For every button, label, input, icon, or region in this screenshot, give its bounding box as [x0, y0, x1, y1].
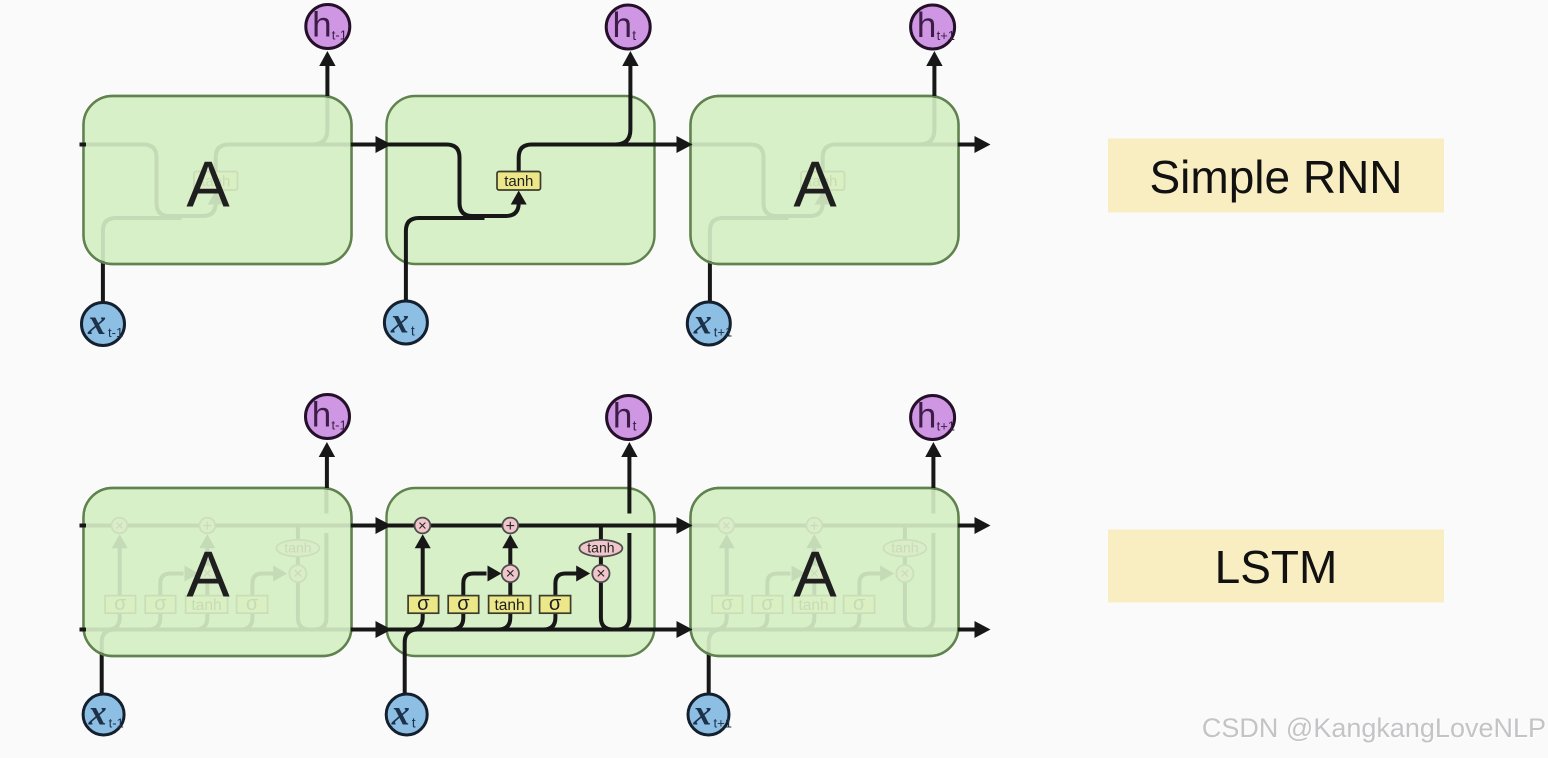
- svg-text:Simple RNN: Simple RNN: [1149, 151, 1402, 203]
- svg-text:t+1: t+1: [714, 325, 732, 340]
- wire h output arrow (top,t): [622, 51, 638, 96]
- svg-text:h: h: [612, 6, 631, 45]
- wire h arrow out of cell3 (bottom): [958, 621, 991, 638]
- label Simple RNN: [1108, 139, 1444, 213]
- svg-text:x: x: [88, 693, 107, 733]
- svg-text:t-1: t-1: [109, 716, 124, 731]
- LSTM cell A (t): [387, 488, 655, 656]
- svg-text:t+1: t+1: [937, 419, 955, 434]
- svg-text:t-1: t-1: [108, 325, 123, 340]
- node x_t bottom: [386, 693, 427, 736]
- node h_t-1 bottom: [306, 395, 350, 439]
- svg-text:x: x: [693, 693, 712, 733]
- wire h arrow cell1 to cell2 (top): [351, 136, 392, 153]
- svg-text:h: h: [613, 397, 632, 436]
- svg-text:A: A: [793, 148, 837, 221]
- wire x input (top,t): [404, 264, 408, 301]
- label LSTM: [1108, 530, 1444, 603]
- svg-text:x: x: [391, 693, 410, 733]
- wire C arrow out of cell3 (bottom): [958, 517, 991, 534]
- svg-text:t: t: [412, 715, 416, 731]
- svg-text:x: x: [693, 302, 712, 342]
- svg-text:h: h: [312, 396, 331, 435]
- svg-text:h: h: [917, 6, 936, 45]
- svg-text:A: A: [793, 538, 837, 611]
- wire h arrow out of cell3 (top): [958, 136, 991, 153]
- svg-text:t: t: [633, 418, 637, 434]
- LSTM cell A (t-1): [84, 488, 352, 656]
- node h_t+1 bottom: [911, 396, 955, 440]
- wire h output arrow (bottom,t): [621, 442, 637, 488]
- node x_t-1 top: [82, 302, 125, 346]
- svg-text:CSDN @KangkangLoveNLP: CSDN @KangkangLoveNLP: [1202, 713, 1546, 743]
- wire x input (top,t+1): [708, 264, 712, 302]
- LSTM cell A (t+1): [691, 488, 959, 656]
- wire h arrow cell2 to cell3 (top): [654, 136, 693, 153]
- svg-text:h: h: [917, 397, 936, 436]
- wire x input (bottom,t-1): [100, 656, 104, 694]
- svg-text:A: A: [186, 148, 230, 221]
- node x_t+1 bottom: [688, 693, 732, 736]
- node h_t+1 top: [911, 5, 955, 49]
- wire x input (bottom,t): [403, 656, 407, 694]
- wire C arrow cell2 to cell3 (bottom): [654, 517, 693, 534]
- wire x input (top,t-1): [101, 264, 105, 303]
- wire h arrow cell1 to cell2 (bottom): [351, 621, 392, 638]
- svg-text:x: x: [390, 301, 409, 341]
- svg-text:t-1: t-1: [332, 418, 347, 433]
- wire x input (bottom,t+1): [707, 656, 711, 694]
- node h_t bottom: [607, 396, 651, 440]
- svg-text:t: t: [632, 27, 636, 43]
- svg-text:t+1: t+1: [937, 28, 955, 43]
- svg-text:t: t: [411, 323, 415, 339]
- wire h output arrow (bottom,t-1): [319, 442, 335, 488]
- wire stub C-in cell1 bottom: [80, 524, 87, 528]
- RNN cell A (t): [387, 96, 655, 264]
- svg-text:LSTM: LSTM: [1215, 541, 1338, 593]
- node x_t top: [384, 301, 427, 345]
- node h_t-1 top: [306, 5, 350, 49]
- svg-text:t+1: t+1: [714, 716, 732, 731]
- svg-text:t-1: t-1: [332, 28, 347, 43]
- wire stub h-in cell1 top row: [80, 143, 87, 147]
- svg-text:h: h: [312, 6, 331, 45]
- wire stub h-in cell1 bottom: [80, 628, 87, 632]
- wire h arrow cell2 to cell3 (bottom): [654, 621, 693, 638]
- RNN cell A (t-1): [84, 96, 352, 264]
- wire h output arrow (top,t+1): [926, 51, 942, 96]
- svg-text:x: x: [87, 302, 106, 342]
- wire C arrow cell1 to cell2 (bottom): [351, 517, 392, 534]
- node x_t+1 top: [687, 302, 732, 346]
- wire h output arrow (top,t-1): [319, 51, 335, 96]
- svg-text:A: A: [186, 538, 230, 611]
- node x_t-1 bottom: [83, 693, 124, 736]
- wire h output arrow (bottom,t+1): [925, 442, 941, 488]
- RNN cell A (t+1): [691, 96, 959, 264]
- node h_t top: [606, 5, 650, 49]
